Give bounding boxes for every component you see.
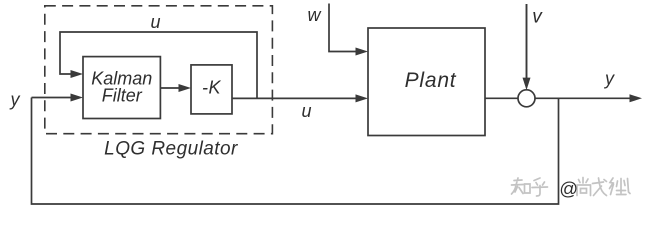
svg-text:y: y: [603, 69, 615, 89]
svg-text:y: y: [9, 90, 21, 110]
svg-text:LQG Regulator: LQG Regulator: [104, 139, 238, 160]
svg-text:v: v: [532, 7, 543, 28]
svg-text:u: u: [150, 12, 160, 32]
svg-text:@: @: [559, 178, 578, 199]
svg-text:w: w: [308, 5, 322, 25]
svg-text:u: u: [301, 101, 311, 121]
svg-text:Plant: Plant: [405, 69, 457, 92]
svg-text:Filter: Filter: [102, 85, 143, 105]
svg-text:-K: -K: [202, 77, 221, 97]
